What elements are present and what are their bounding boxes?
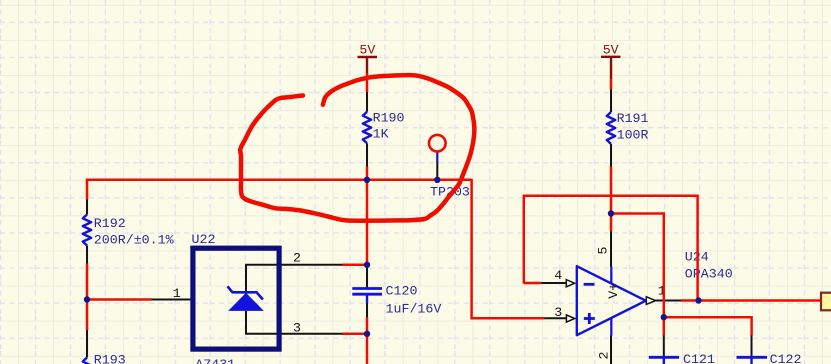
op-amp U24 pin 3 lead xyxy=(544,317,567,319)
op-amp U24 triangle xyxy=(577,266,646,335)
svg-text:200R/±0.1%: 200R/±0.1% xyxy=(94,232,174,247)
capacitor C122 pin xyxy=(751,335,753,357)
resistor R190 bottom pin xyxy=(366,143,368,168)
capacitor C122 xyxy=(737,357,768,364)
junction at TP203 xyxy=(434,177,440,183)
svg-text:5V: 5V xyxy=(603,43,619,58)
wire R191 to supply node xyxy=(610,167,613,232)
svg-text:1K: 1K xyxy=(373,127,389,142)
svg-text:3: 3 xyxy=(293,320,301,335)
svg-text:C120: C120 xyxy=(386,284,418,299)
resistor R190 xyxy=(363,112,371,144)
U22 pin 3 xyxy=(282,333,344,335)
op-amp U24 pin 2 xyxy=(610,336,612,364)
wire node to C121 xyxy=(663,317,666,335)
svg-text:OPA340: OPA340 xyxy=(685,266,733,281)
junction at U22 pin 3 node xyxy=(364,331,370,337)
junction at op-amp output xyxy=(695,297,701,303)
test point TP203 ring xyxy=(429,135,446,152)
op-amp U24 pin 5 inner stub xyxy=(610,267,612,284)
svg-text:3: 3 xyxy=(554,305,562,320)
svg-text:2: 2 xyxy=(597,352,612,360)
capacitor C120 xyxy=(352,289,382,304)
wire main horizontal net xyxy=(87,179,472,182)
wire R192 to node xyxy=(86,264,89,331)
junction at cap rail xyxy=(661,314,667,320)
resistor R192 xyxy=(83,215,91,246)
wire feedback loop xyxy=(524,196,698,301)
wire to op-amp pin 4 xyxy=(524,282,542,285)
op-amp pin 3 arrow xyxy=(566,315,574,322)
svg-text:C122: C122 xyxy=(770,352,802,364)
capacitor C121 pin xyxy=(663,335,665,357)
op-amp U24 non-inverting input mark xyxy=(584,313,595,324)
junction at R192/U22 pin1 node xyxy=(84,296,90,302)
wire 5V to R191 xyxy=(610,79,613,90)
resistor R191 bottom pin xyxy=(610,144,612,168)
capacitor C120 top pin xyxy=(366,265,368,288)
op-amp output arrow xyxy=(646,297,655,305)
U22 body rectangle xyxy=(193,248,279,349)
U22 zener diode xyxy=(228,286,264,311)
svg-text:2: 2 xyxy=(293,250,301,265)
svg-text:R193: R193 xyxy=(94,353,126,364)
capacitor C120 bottom pin xyxy=(366,303,368,318)
capacitor C121 xyxy=(649,357,679,364)
op-amp U24 pin 1 output lead xyxy=(655,300,682,302)
wire to U22 pin 1 xyxy=(87,298,152,301)
U22 internal wiring xyxy=(246,265,279,334)
test point TP203 pin xyxy=(436,162,438,181)
svg-text:U22: U22 xyxy=(192,232,216,247)
svg-text:1uF/16V: 1uF/16V xyxy=(386,302,442,317)
resistor R192 bottom pin xyxy=(86,246,88,265)
wire C120 bottom node down xyxy=(366,317,369,364)
resistor R192 top pin xyxy=(86,199,88,215)
wire U22 pin 2 to node xyxy=(343,264,368,267)
op-amp U24 pin 4 lead xyxy=(541,282,567,284)
op-amp U24 inverting input mark xyxy=(584,283,595,286)
svg-text:100R: 100R xyxy=(617,128,649,143)
wire 5V to R190 xyxy=(366,73,369,92)
svg-text:5V: 5V xyxy=(359,42,375,57)
5V power symbol (right) xyxy=(601,43,621,79)
svg-text:R190: R190 xyxy=(373,111,405,126)
wire op-amp output to port xyxy=(681,299,822,302)
wire U22 pin 3 to node xyxy=(343,333,368,336)
svg-text:R191: R191 xyxy=(617,111,649,126)
resistor R193 top pin xyxy=(86,330,88,358)
svg-text:1: 1 xyxy=(173,286,181,301)
wire supply branch to caps xyxy=(611,214,664,318)
5V power symbol (left) xyxy=(358,42,378,74)
wire R190 to C120 top node xyxy=(366,167,369,266)
junction at U22 pin 2 node xyxy=(364,262,370,268)
wire cap rail to C122 xyxy=(664,317,752,335)
svg-text:5: 5 xyxy=(596,247,611,255)
U22 pin 2 xyxy=(282,264,344,266)
svg-text:4: 4 xyxy=(554,268,562,283)
junction at R190 bottom xyxy=(364,177,370,183)
op-amp U24 pin 2 inner stub xyxy=(610,318,612,336)
svg-text:R192: R192 xyxy=(94,216,126,231)
svg-text:C121: C121 xyxy=(683,352,715,364)
op-amp U24 pin 5 xyxy=(610,231,612,267)
junction at supply branch xyxy=(608,210,614,216)
port (right edge) xyxy=(821,293,831,311)
freehand red annotation loop xyxy=(240,75,474,221)
op-amp pin 4 arrow xyxy=(566,280,574,287)
wire left drop xyxy=(86,179,89,200)
resistor R193 xyxy=(83,358,91,364)
resistor R191 top pin xyxy=(610,89,612,113)
svg-text:A7431: A7431 xyxy=(195,357,235,364)
test point TP203 stub xyxy=(436,152,438,162)
resistor R190 top pin xyxy=(366,92,368,112)
wire right drop to op-amp pin 3 xyxy=(472,179,545,318)
resistor R191 xyxy=(607,112,615,144)
U22 pin 1 xyxy=(151,299,191,301)
svg-text:V+: V+ xyxy=(606,283,621,299)
